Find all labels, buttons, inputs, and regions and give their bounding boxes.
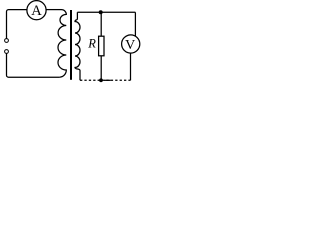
terminal T2 (lower input binding post) [5,50,9,54]
voltmeter V (circle) [122,35,140,53]
wire: secondary top wire to right branch [77,11,135,13]
wire: primary bottom-left from terminal T2 down and right to primary winding [7,53,60,77]
terminal T1 (upper input binding post) [5,39,9,43]
junction dot on bottom dashed wire (node b) [99,78,103,82]
wire: voltmeter bottom stub down to dashed bottom wire [130,53,132,80]
resistor R (rectangle body) [99,36,104,56]
wire: primary top-left from terminal T1 up and right to ammeter [7,10,27,39]
transformer primary winding [58,10,66,78]
junction dot on top wire (node a) [99,10,103,14]
transformer core [70,10,72,80]
wire: voltmeter top stub [134,12,136,36]
svg-text:V: V [125,38,135,53]
wire: resistor bottom lead to dashed bottom wire [100,56,102,81]
wire: long dash segment of dashed bottom wire [104,79,111,81]
wire: ammeter to transformer primary [46,9,61,11]
wire: resistor branch from top junction down to resistor [100,12,102,36]
svg-text:R: R [87,36,96,50]
svg-text:A: A [31,3,42,19]
ammeter A (circle) [27,1,46,20]
wire: secondary bottom dashed wire [80,79,131,81]
transformer secondary winding [75,12,80,80]
